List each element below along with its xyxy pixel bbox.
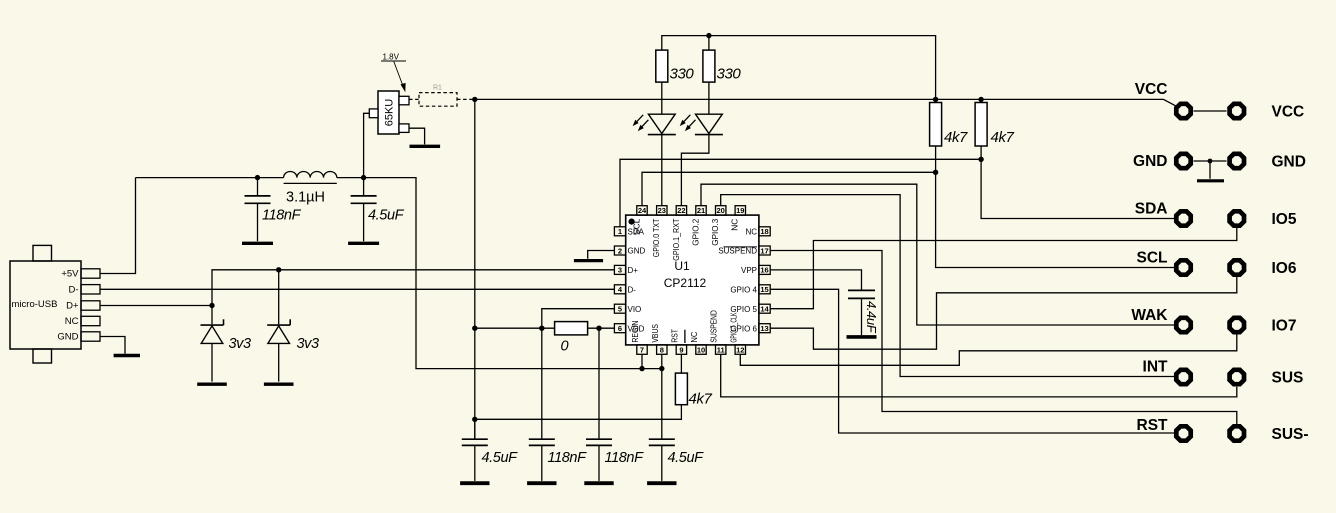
label SDA (header left) [1135, 201, 1168, 218]
svg-text:RST: RST [1137, 417, 1169, 434]
svg-text:2: 2 [618, 246, 622, 255]
svg-text:22: 22 [677, 206, 685, 215]
svg-text:4k7: 4k7 [689, 391, 713, 408]
svg-text:19: 19 [736, 206, 744, 215]
wire micro-USB GND to ground [100, 337, 125, 354]
svg-text:GPIO.3: GPIO.3 [711, 218, 720, 246]
label SUS- (header right) [1272, 426, 1309, 443]
wire C6 top lead [474, 419, 476, 438]
U1 pin 14 GPIO 5 [730, 304, 770, 314]
ground 65KU [410, 145, 441, 148]
label 3.1uH [286, 190, 325, 206]
wire GND pads to ground [1209, 161, 1211, 179]
wire SCL: U1 pin 24 up and right to R5 [642, 172, 936, 205]
label CP2112 [664, 276, 707, 290]
wire U1 pin 9 RST to pullup [680, 354, 682, 373]
svg-text:VCC: VCC [1135, 81, 1168, 98]
svg-text:1: 1 [618, 227, 622, 236]
svg-text:GND: GND [1133, 153, 1167, 170]
label 4k7 (R5) [944, 129, 968, 146]
wire +5V from micro-USB up to LC filter rail [100, 178, 136, 274]
svg-text:NC: NC [690, 331, 699, 342]
U1 pin 16 VPP [741, 265, 770, 275]
U1 pin 13 GPIO 6 [730, 324, 770, 334]
op-amp U1 body (CP2112) [626, 215, 759, 345]
inductor L1 3.1uH [284, 172, 337, 184]
U1 pin 8 VBUS [651, 324, 667, 354]
wire R6 bottom lead [980, 146, 982, 159]
svg-text:4: 4 [618, 285, 623, 294]
pad IO7 (right) [1230, 318, 1244, 332]
svg-text:VPP: VPP [741, 266, 757, 275]
wire U1 GND pin 2 to ground [588, 251, 615, 259]
svg-text:GND: GND [628, 247, 646, 256]
pad SDA (left) [1176, 211, 1190, 225]
label 330 (R2) [670, 66, 695, 83]
svg-text:VCC: VCC [1272, 104, 1305, 121]
wire GPIO.4: U1 pin 15 to RST pad [770, 289, 1174, 433]
ground U1 pin 2 [574, 259, 603, 262]
wire D+ from micro-USB to U1 pin 3 [100, 270, 614, 306]
ground diode D2 [264, 383, 294, 386]
resistor R0 0-ohm [555, 322, 588, 335]
wire SDA down to SDA pad [981, 159, 1174, 218]
wire 65KU lower pin to ground [409, 128, 425, 144]
svg-text:REGIN: REGIN [631, 320, 640, 342]
ground C8 [584, 481, 613, 485]
svg-text:18: 18 [760, 227, 768, 236]
junction SDA / R6 [978, 157, 983, 162]
pad INT (left) [1176, 370, 1190, 384]
capacitor C7 118nF [529, 439, 555, 481]
label 3v3 (D1) [229, 336, 252, 352]
pad SUS (right) [1230, 370, 1244, 384]
svg-text:SUSPEND: SUSPEND [710, 310, 719, 343]
pad GND (left) [1176, 154, 1190, 168]
svg-text:NC: NC [731, 218, 740, 230]
svg-text:4.4uF: 4.4uF [864, 301, 879, 334]
resistor R2 330 [656, 50, 668, 82]
svg-text:GPIO.2: GPIO.2 [691, 218, 700, 246]
svg-text:118nF: 118nF [548, 450, 588, 466]
wire R0 right down to C5 [598, 328, 600, 438]
wire GPIO.2: U1 pin 21 to WAK pad [701, 184, 1174, 325]
zener diode D2 3v3 [267, 270, 290, 382]
regulator 65KU [369, 91, 409, 134]
svg-text:4.5uF: 4.5uF [668, 450, 705, 466]
junction GND pads [1208, 159, 1213, 164]
label GND (header left) [1133, 153, 1167, 170]
svg-text:IO6: IO6 [1272, 260, 1297, 277]
svg-text:11: 11 [717, 345, 725, 354]
resistor R3 330 [703, 50, 715, 82]
wire GND pads link [1194, 160, 1227, 162]
label 1.8V with arrow [381, 52, 406, 92]
svg-text:17: 17 [760, 246, 768, 255]
label SCL (header left) [1137, 250, 1168, 267]
wire VDD vertical rail [474, 99, 476, 438]
ground diode D1 [197, 383, 227, 386]
U1 pin 7 REGIN [631, 320, 647, 354]
label VCC (header left) [1135, 81, 1168, 98]
wire inductor to corner, down and along to U1 pins 7/8 [337, 178, 662, 369]
svg-text:D+: D+ [628, 266, 639, 275]
capacitor C8 118nF [586, 439, 612, 481]
svg-text:8: 8 [660, 345, 664, 354]
capacitor C1 118nF [245, 178, 271, 242]
label GND (header right) [1272, 154, 1306, 171]
svg-text:0: 0 [561, 339, 569, 355]
svg-text:D-: D- [68, 285, 78, 296]
svg-text:24: 24 [638, 206, 647, 215]
label 118nF (C7) [548, 450, 588, 466]
U1 pin 21 GPIO.2 [691, 206, 706, 246]
wire GPIO.7_CLK: U1 pin 12 to IO7 pad [740, 335, 1237, 366]
wire GPIO.3: U1 pin 20 to INT pad [721, 195, 1174, 377]
pad IO6 (right) [1230, 260, 1244, 274]
svg-text:SUSPEND: SUSPEND [718, 247, 757, 256]
svg-text:IO7: IO7 [1272, 318, 1297, 335]
label 330 (R3) [717, 66, 742, 83]
U1 pin 18 NC [745, 227, 770, 237]
label VCC (header right) [1272, 104, 1305, 121]
junction L1 right / C2 / 65KU [361, 175, 366, 180]
svg-text:GND: GND [57, 332, 78, 343]
svg-text:R1: R1 [433, 85, 442, 92]
label 4k7 (R7) [689, 391, 713, 408]
svg-text:4.5uF: 4.5uF [482, 450, 519, 466]
resistor R5 4k7 [930, 103, 942, 147]
junction R1 output / VDD [472, 97, 477, 102]
label 4k7 (R6) [991, 129, 1015, 146]
wire R3 top lead [708, 36, 710, 51]
wire VCC pads link [1194, 110, 1227, 112]
ground C6 [460, 481, 489, 485]
junction 4k7 R6 top [978, 97, 983, 102]
svg-text:10: 10 [697, 345, 705, 354]
label U1 [674, 259, 690, 273]
svg-text:12: 12 [736, 345, 744, 354]
junction VDD / RST pullup row [472, 417, 477, 422]
wire R6 top lead [980, 99, 982, 102]
svg-text:INT: INT [1143, 359, 1169, 376]
pad SUS- (right) [1230, 426, 1244, 440]
svg-text:SDA: SDA [1135, 201, 1168, 218]
svg-text:IO5: IO5 [1272, 211, 1297, 228]
svg-text:20: 20 [717, 206, 725, 215]
label 4.5uF (C2) [368, 208, 405, 224]
pad SCL (left) [1176, 260, 1190, 274]
svg-text:3v3: 3v3 [297, 336, 320, 352]
junction pin 8 / 5V rail [659, 366, 664, 371]
svg-text:SUS-: SUS- [1272, 426, 1309, 443]
junction on D+ at diode D1 [209, 303, 214, 308]
ground header GND [1197, 179, 1224, 182]
svg-text:118nF: 118nF [262, 208, 302, 224]
zener diode D1 3v3 [201, 306, 224, 382]
wire SUSPEND: U1 pin 11 to SUS pad [721, 354, 1237, 397]
capacitor C2 4.5uF [351, 178, 377, 242]
wire U1 VIO pin 5 down to C4 [542, 309, 615, 439]
svg-text:330: 330 [717, 66, 742, 83]
U1 pin 11 SUSPEND [710, 310, 726, 354]
U1 pin 1 SDA [614, 227, 644, 237]
label INT (header left) [1143, 359, 1169, 376]
label R1 [433, 85, 442, 92]
svg-text:GPIO.7_CLK: GPIO.7_CLK [729, 312, 738, 342]
svg-text:GPIO.0 TXT: GPIO.0 TXT [652, 219, 661, 258]
resistor R6 4k7 [975, 103, 987, 147]
pad IO5 (right) [1230, 211, 1244, 225]
svg-text:CP2112: CP2112 [664, 276, 707, 290]
pin 1 marker [629, 219, 635, 225]
resistor R7 4k7 (RST pullup) [675, 373, 687, 405]
label 4.5uF (C9) [668, 450, 705, 466]
svg-text:7: 7 [640, 345, 644, 354]
svg-text:D-: D- [628, 286, 637, 295]
svg-text:15: 15 [760, 285, 768, 294]
label 118nF (C1) [262, 208, 302, 224]
wire VDD row to resistor 0 [475, 327, 555, 329]
svg-text:GPIO 5: GPIO 5 [730, 305, 757, 314]
label 0 [561, 339, 569, 355]
svg-text:6: 6 [618, 324, 622, 333]
svg-text:4k7: 4k7 [991, 129, 1015, 146]
wire U1 pin 7 REGIN stub [641, 354, 643, 368]
svg-text:4k7: 4k7 [944, 129, 968, 146]
wire LED supply rail [662, 36, 936, 100]
svg-text:NC: NC [65, 316, 79, 327]
wire junction up to 65KU left pin [364, 113, 370, 177]
wire SDA: U1 pin 1 up and right to R6 [620, 159, 981, 227]
svg-text:9: 9 [679, 345, 683, 354]
pad GND (right) [1230, 154, 1244, 168]
label 118nF (C8) [605, 450, 645, 466]
capacitor C9 4.5uF [649, 439, 675, 481]
label IO6 (header right) [1272, 260, 1297, 277]
ground micro-USB [114, 354, 140, 357]
svg-text:118nF: 118nF [605, 450, 645, 466]
pad VCC (left) [1176, 104, 1190, 118]
wire GPIO.5: U1 pin 14 to IO5 pad [770, 227, 1237, 309]
svg-text:NC: NC [745, 228, 757, 237]
svg-text:3: 3 [618, 266, 622, 275]
U1 pin 3 D+ [614, 265, 638, 275]
junction R0 right / C5 [596, 326, 601, 331]
svg-text:D+: D+ [66, 301, 79, 312]
junction VDD / R0 row [472, 326, 477, 331]
label 4.5uF (C6) [482, 450, 519, 466]
wire GPIO.6: U1 pin 13 to IO6 pad [770, 276, 1237, 349]
U1 pin 6 VDD [614, 324, 644, 334]
svg-text:330: 330 [670, 66, 695, 83]
U1 pin 22 GPIO.1_RXT [672, 206, 687, 261]
U1 pin 10 NC [690, 331, 706, 354]
LED LED2 [680, 114, 723, 134]
wire VPP: U1 pin 16 to C3 [770, 270, 861, 290]
connector J1 micro-USB [10, 245, 100, 363]
junction on D+ riser at diode D2 [276, 267, 281, 272]
svg-text:21: 21 [697, 206, 705, 215]
wire 5V rail to inductor [136, 177, 284, 179]
svg-text:micro-USB: micro-USB [12, 299, 58, 310]
U1 pin 12 GPIO.7_CLK [729, 312, 745, 354]
U1 pin 2 GND [614, 246, 645, 256]
label IO7 (header right) [1272, 318, 1297, 335]
wire LED2 to U1 pin 22 [681, 135, 709, 206]
wire LED1 to U1 pin 23 [661, 135, 663, 206]
wire R5 bottom lead [935, 146, 937, 172]
U1 pin 23 GPIO.0 TXT [652, 206, 667, 258]
U1 pin 19 NC [731, 206, 746, 231]
svg-text:23: 23 [658, 206, 666, 215]
U1 pin 5 VIO [614, 304, 641, 314]
svg-text:13: 13 [760, 324, 768, 333]
svg-text:SUS: SUS [1272, 370, 1304, 387]
svg-text:4.5uF: 4.5uF [368, 208, 405, 224]
junction R0 left / VIO [539, 326, 544, 331]
wire R7 bottom to VDD rail [475, 405, 682, 420]
U1 pin 15 GPIO 4 [730, 285, 770, 295]
label RST (header left) [1137, 417, 1169, 434]
U1 pin 9 RST [670, 329, 686, 354]
pad VCC (right) [1230, 104, 1244, 118]
label WAK (header left) [1131, 307, 1168, 324]
wire SCL down to SCL pad [936, 172, 1174, 267]
svg-text:14: 14 [760, 305, 769, 314]
svg-text:GPIO 4: GPIO 4 [730, 286, 757, 295]
junction C1 top [255, 175, 260, 180]
junction 4k7 R5 top [933, 97, 938, 102]
svg-text:SCL: SCL [632, 218, 641, 235]
label 4.4uF (C3) [864, 301, 879, 334]
resistor R1 (dashed placeholder) [409, 93, 475, 107]
svg-text:WAK: WAK [1131, 307, 1168, 324]
ground C2 [348, 242, 379, 245]
U1 pin 17 SUSPEND [718, 246, 770, 256]
svg-text:16: 16 [760, 266, 768, 275]
wire SUSPEND: U1 pin 17 to SUS- pad [770, 251, 1237, 425]
svg-text:GPIO.1_RXT: GPIO.1_RXT [672, 219, 681, 261]
U1 pin 20 GPIO.3 [711, 206, 726, 246]
capacitor C3 4.4uF [848, 290, 875, 335]
wire R3 to LED2 [708, 82, 710, 114]
junction R3 top [706, 33, 711, 38]
svg-text:RST: RST [670, 329, 679, 343]
ground C1 [242, 242, 273, 245]
ground C3 [847, 335, 877, 339]
capacitor C6 4.5uF [462, 439, 488, 481]
wire R0 to U1 pin 6 [588, 327, 615, 329]
svg-text:3.1µH: 3.1µH [286, 190, 325, 206]
svg-text:+5V: +5V [61, 269, 79, 280]
svg-text:1.8V: 1.8V [383, 52, 400, 61]
wire R2 to LED1 [661, 82, 663, 114]
svg-text:VBUS: VBUS [651, 324, 660, 343]
ground C7 [527, 481, 556, 485]
junction pin 7 / 5V rail [639, 366, 644, 371]
svg-text:3v3: 3v3 [229, 336, 252, 352]
svg-text:GND: GND [1272, 154, 1306, 171]
wire VCC rail to VCC pad [475, 99, 1176, 105]
U1 pin 24 SCL [632, 206, 647, 235]
label IO5 (header right) [1272, 211, 1297, 228]
svg-text:65KU: 65KU [384, 99, 396, 127]
svg-text:SCL: SCL [1137, 250, 1168, 267]
wire U1 pin 8 VBUS down to C9 [661, 354, 663, 438]
LED LED1 [633, 114, 676, 134]
svg-text:5: 5 [618, 305, 622, 314]
ground C9 [647, 481, 676, 485]
label 3v3 (D2) [297, 336, 320, 352]
pad WAK (left) [1176, 318, 1190, 332]
junction SCL / R5 [933, 170, 938, 175]
pad RST (left) [1176, 426, 1190, 440]
svg-text:VIO: VIO [628, 305, 642, 314]
label SUS (header right) [1272, 370, 1304, 387]
wire D- from micro-USB to U1 pin 4 [100, 288, 614, 290]
U1 pin 4 D- [614, 285, 636, 295]
